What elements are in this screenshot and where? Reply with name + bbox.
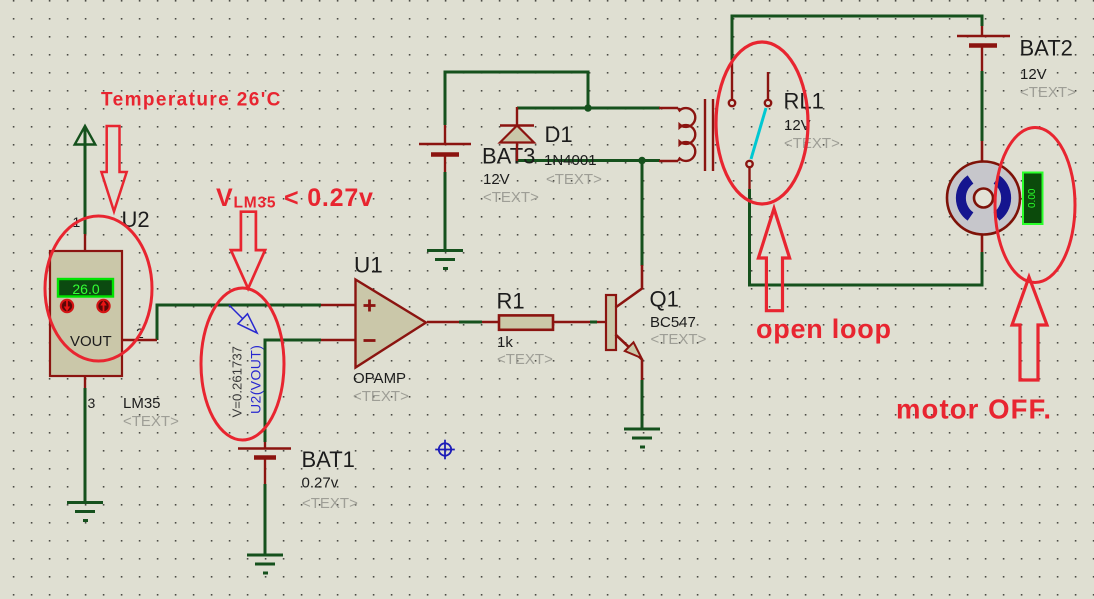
annotation ellipse around U2 [45,216,152,361]
svg-text:12V: 12V [1020,66,1047,83]
junction at coil top rail [584,104,591,111]
wire BAT3 top to coil top rail [445,72,588,125]
RL1 labels [784,89,841,153]
wire LM35 pin1 to input terminal [84,126,87,234]
relay RL1 coil [659,99,713,171]
svg-text:<TEXT>: <TEXT> [497,351,553,368]
wire LM35 pin3 to ground [84,388,87,502]
svg-text:Q1: Q1 [650,287,679,312]
collector lead [616,265,643,308]
battery BAT1 0.27v [238,442,358,512]
ground below Q1 emitter [624,429,660,447]
transistor Q1 BC547 [597,265,707,380]
wire BAT1 minus to ground [264,484,267,555]
wire Q1 collector to coil bottom rail [641,161,644,267]
svg-text:<TEXT>: <TEXT> [784,135,840,152]
ground below LM35 [67,503,103,521]
svg-text:U1: U1 [354,253,383,278]
blue crosshair origin marker [435,440,455,460]
pin 3 stub [84,376,86,388]
motor [947,141,1043,252]
minus mark [364,339,376,342]
svg-text:<TEXT>: <TEXT> [123,413,179,430]
plus mark [364,304,376,307]
svg-text:U2(VOUT): U2(VOUT) [248,345,264,414]
svg-text:OPAMP: OPAMP [353,370,406,387]
svg-text:<TEXT>: <TEXT> [546,171,602,188]
wire top loop from relay common to BAT2 [732,16,982,60]
svg-text:motor OFF.: motor OFF. [896,394,1052,425]
probe pointer blue arrow [229,305,257,333]
svg-text:V=0.261737: V=0.261737 [230,346,245,418]
annotation ellipse around relay switch [716,42,808,204]
battery BAT2 12V [957,26,1076,101]
NC contact pin stub [767,72,769,99]
wire opamp output to R1 [459,321,482,324]
base bar [606,295,616,350]
svg-text:Temperature 26'C: Temperature 26'C [101,90,282,111]
svg-text:BAT1: BAT1 [302,447,355,472]
annotation arrow up at relay [758,209,789,311]
right brush arc [997,180,1007,217]
battery BAT3 12V [419,125,539,206]
annotation arrow up at motor [1012,277,1047,380]
emitter arrow [625,342,642,358]
wire Q1 emitter to ground [641,380,644,429]
svg-text:open loop: open loop [756,314,892,344]
fixed contact pin from top wire [731,60,733,99]
wire BAT3 bottom to ground [444,172,447,250]
output stub [427,321,459,323]
svg-text:1N4001: 1N4001 [544,152,597,169]
svg-text:D1: D1 [545,122,573,147]
wire LM35 VOUT to opamp plus input [157,305,321,340]
svg-text:BAT3: BAT3 [482,144,535,169]
resistor R1 1k [482,289,590,369]
svg-text:R1: R1 [497,289,525,314]
svg-text:1k: 1k [497,334,513,351]
wire coil top rail from D1 cathode [517,107,660,110]
annotation ellipse around probe [201,288,284,440]
pin 2 stub [122,339,157,341]
svg-text:12V: 12V [483,171,510,188]
input terminal at LM35 pin 1 [75,126,96,145]
junction at coil bottom rail [638,157,645,164]
motor rpm display [1023,173,1043,225]
diode D1 1N4001 [500,107,602,188]
left brush arc [961,180,971,217]
svg-text:0.00: 0.00 [1027,188,1038,208]
annotation ellipse around motor [995,128,1075,283]
LCD display 26.0 [58,279,113,297]
relay RL1 switch [729,60,771,189]
svg-text:<TEXT>: <TEXT> [1020,84,1076,101]
plus input stub [321,304,356,306]
wire relay pole down and right to motor bottom [750,189,983,285]
down knob [61,300,73,312]
svg-text:LM35: LM35 [123,395,161,412]
op-amp U1 [321,253,459,406]
temperature sensor U2 LM35 [50,207,179,430]
svg-text:BC547: BC547 [650,314,696,331]
wire coil bottom rail from D1 anode [517,159,660,162]
wire BAT2 to motor top [981,71,984,141]
svg-text:0.27v: 0.27v [302,475,339,492]
svg-text:<TEXT>: <TEXT> [302,495,358,512]
relay core bars [704,99,706,171]
wire R1 to Q1 base [590,321,597,324]
up knob [97,300,109,312]
svg-text:26.0: 26.0 [72,281,99,297]
relay blade (open, cyan) [751,108,766,159]
emitter lead [616,335,643,381]
svg-text:<TEXT>: <TEXT> [651,331,707,348]
base stub [597,321,606,323]
WIRES-AND-NETS [85,16,982,555]
svg-text:U2: U2 [122,207,150,232]
svg-text:<TEXT>: <TEXT> [483,189,539,206]
minus input stub [321,339,356,341]
svg-text:BAT2: BAT2 [1020,36,1073,61]
pin 1 stub [84,234,86,252]
pole pin [746,161,752,167]
svg-text:3: 3 [88,395,96,411]
annotation arrow down at probe [231,212,265,289]
svg-text:VOUT: VOUT [70,333,112,350]
wire BAT1 plus to opamp minus input [265,340,321,442]
annotation arrow down at U2 [101,126,126,211]
ground below BAT1 [247,555,283,573]
svg-text:<TEXT>: <TEXT> [353,388,409,405]
ground below BAT3 [427,251,463,269]
